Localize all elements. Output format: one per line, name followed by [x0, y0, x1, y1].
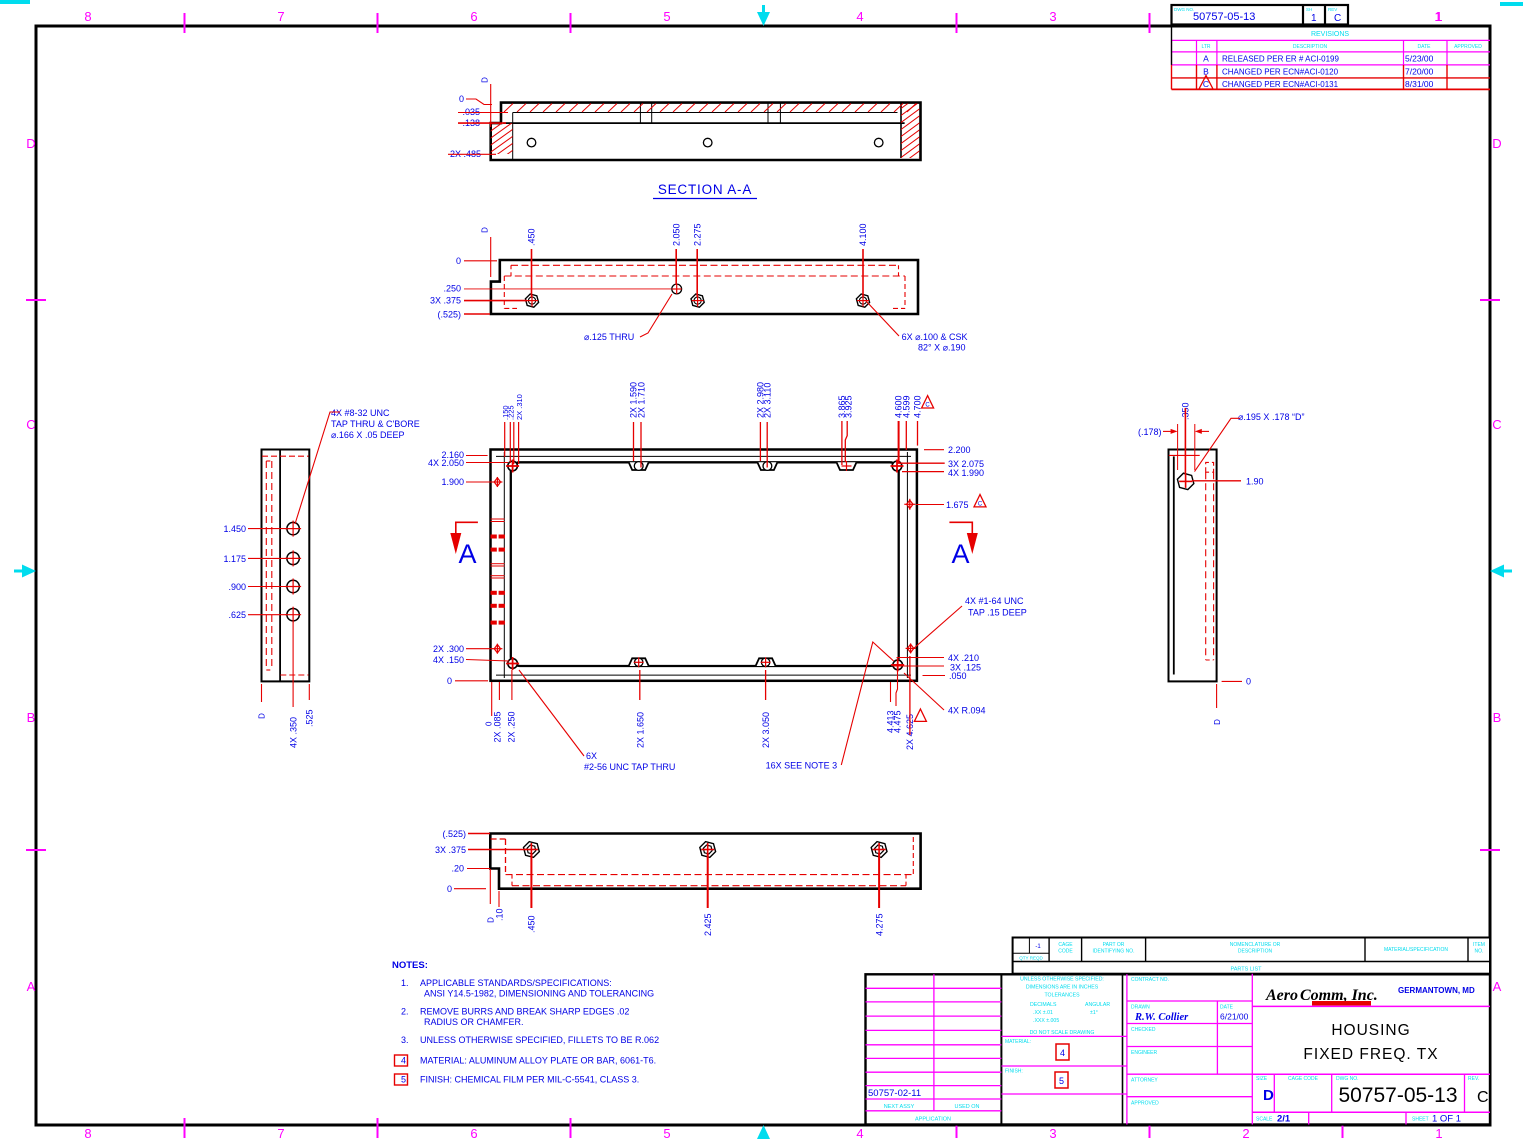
svg-text:SCALE: SCALE	[1256, 1117, 1273, 1123]
svg-text:.20: .20	[451, 864, 464, 874]
svg-text:⌀.125 THRU: ⌀.125 THRU	[584, 332, 634, 342]
svg-text:USED ON: USED ON	[954, 1104, 979, 1110]
svg-text:1 OF 1: 1 OF 1	[1432, 1114, 1461, 1125]
svg-text:1.: 1.	[401, 978, 409, 988]
main view right rim holes	[907, 500, 913, 508]
svg-text:.625: .625	[228, 610, 246, 620]
svg-text:DESCRIPTION: DESCRIPTION	[1238, 949, 1273, 955]
svg-text:CAGE CODE: CAGE CODE	[1288, 1076, 1319, 1082]
svg-text:2X 3.110: 2X 3.110	[763, 383, 773, 418]
svg-text:DRAWN: DRAWN	[1131, 1005, 1150, 1011]
svg-text:RADIUS OR CHAMFER.: RADIUS OR CHAMFER.	[424, 1017, 524, 1027]
finish flag 5	[1055, 1072, 1068, 1088]
svg-text:DESCRIPTION: DESCRIPTION	[1293, 44, 1328, 50]
svg-text:2X 3.050: 2X 3.050	[761, 712, 771, 748]
bottom view csk holes 3X	[524, 842, 540, 858]
svg-text:.525: .525	[305, 709, 315, 727]
svg-text:6X: 6X	[586, 751, 597, 761]
svg-text:2.200: 2.200	[948, 445, 971, 455]
svg-text:0: 0	[1246, 677, 1251, 687]
svg-text:1.90: 1.90	[1246, 477, 1264, 487]
svg-text:CAGE: CAGE	[1058, 942, 1073, 948]
svg-text:PART OR: PART OR	[1103, 942, 1125, 948]
svg-text:0: 0	[459, 94, 464, 104]
svg-text:2: 2	[1242, 1126, 1249, 1139]
right view red lip line	[1169, 454, 1200, 456]
svg-text:⌀.166 X .05 DEEP: ⌀.166 X .05 DEEP	[331, 430, 404, 440]
svg-text:4.275: 4.275	[874, 913, 884, 936]
signature column	[1216, 1001, 1218, 1074]
svg-text:FINISH: CHEMICAL FILM PER MIL-: FINISH: CHEMICAL FILM PER MIL-C-5541, CL…	[420, 1075, 639, 1085]
svg-text:.450: .450	[527, 228, 537, 246]
svg-text:8/31/00: 8/31/00	[1405, 79, 1434, 89]
svg-text:16X SEE NOTE 3: 16X SEE NOTE 3	[766, 761, 838, 771]
svg-text:4: 4	[856, 1126, 863, 1139]
svg-text:C: C	[1334, 13, 1341, 24]
svg-text:3: 3	[1049, 9, 1056, 24]
svg-text:1: 1	[1311, 13, 1317, 24]
svg-text:82° X ⌀.190: 82° X ⌀.190	[918, 343, 966, 353]
title block outer	[866, 974, 1491, 1124]
svg-text:6X ⌀.100 & CSK: 6X ⌀.100 & CSK	[902, 332, 968, 342]
svg-text:.450: .450	[527, 915, 537, 933]
svg-text:2.425: 2.425	[703, 913, 713, 936]
left view lip dashed lines	[262, 455, 309, 457]
svg-text:REMOVE BURRS AND BREAK SHARP E: REMOVE BURRS AND BREAK SHARP EDGES .02	[420, 1007, 629, 1017]
svg-text:1.175: 1.175	[223, 554, 246, 564]
svg-text:4X 2.050: 4X 2.050	[428, 458, 464, 468]
section A-A hatch right block	[899, 93, 922, 187]
svg-text:6: 6	[470, 1126, 477, 1139]
svg-text:A: A	[1493, 979, 1502, 994]
main view bottom notches	[629, 658, 649, 666]
svg-text:2X .085: 2X .085	[493, 711, 503, 742]
svg-text:FIXED FREQ. TX: FIXED FREQ. TX	[1303, 1046, 1438, 1063]
svg-text:ATTORNEY: ATTORNEY	[1131, 1078, 1158, 1084]
parts list header box	[1013, 938, 1490, 974]
svg-text:D: D	[1213, 719, 1222, 725]
svg-text:CHECKED: CHECKED	[1131, 1027, 1156, 1033]
svg-text:HOUSING: HOUSING	[1331, 1022, 1410, 1039]
svg-text:MATERIAL: ALUMINUM ALLOY PLATE: MATERIAL: ALUMINUM ALLOY PLATE OR BAR, 6…	[420, 1056, 656, 1066]
svg-text:50757-05-13: 50757-05-13	[1193, 11, 1255, 23]
svg-text:APPLICATION: APPLICATION	[915, 1117, 951, 1123]
bottom view outline	[490, 834, 920, 889]
revision block dwg no box	[1172, 5, 1349, 25]
svg-text:6: 6	[470, 9, 477, 24]
svg-text:DO NOT SCALE DRAWING: DO NOT SCALE DRAWING	[1030, 1030, 1095, 1036]
svg-text:DATE: DATE	[1418, 44, 1432, 50]
svg-text:2.: 2.	[401, 1007, 409, 1017]
svg-text:CONTRACT NO.: CONTRACT NO.	[1131, 977, 1169, 983]
svg-text:C: C	[26, 417, 35, 432]
svg-text:2.050: 2.050	[672, 223, 682, 246]
svg-text:R.W. Collier: R.W. Collier	[1134, 1012, 1189, 1023]
svg-text:.900: .900	[228, 582, 246, 592]
front view hole .125 thru	[672, 284, 682, 294]
zone ticks sides	[26, 299, 46, 301]
left view holes 4X	[287, 522, 299, 534]
svg-text:B: B	[1493, 710, 1502, 725]
svg-text:4X #1-64 UNC: 4X #1-64 UNC	[965, 596, 1024, 606]
svg-text:5: 5	[663, 1126, 670, 1139]
svg-text:1.675: 1.675	[946, 500, 969, 510]
section A-A screw holes	[527, 138, 536, 147]
section A-A hatch left block	[488, 106, 516, 175]
scale sheet row	[1252, 1111, 1490, 1113]
svg-text:LTR: LTR	[1201, 44, 1210, 50]
svg-text:2X 1.650: 2X 1.650	[635, 712, 645, 748]
svg-text:3: 3	[1049, 1126, 1056, 1139]
svg-text:D: D	[481, 227, 490, 233]
svg-text:SHEET: SHEET	[1412, 1117, 1429, 1123]
svg-text:1.450: 1.450	[223, 524, 246, 534]
left view inner line	[279, 450, 281, 682]
main view outer rect	[491, 450, 917, 681]
svg-text:TAP .15 DEEP: TAP .15 DEEP	[968, 608, 1027, 618]
tolerance block	[1122, 974, 1124, 1125]
svg-text:0: 0	[456, 256, 461, 266]
svg-text:MATERIAL:: MATERIAL:	[1005, 1039, 1031, 1045]
svg-text:⌀.195 X .178 “D”: ⌀.195 X .178 “D”	[1238, 412, 1304, 422]
svg-text:2.275: 2.275	[693, 223, 703, 246]
svg-text:1: 1	[1434, 9, 1441, 24]
svg-text:4X #8-32 UNC: 4X #8-32 UNC	[331, 408, 390, 418]
svg-text:NO.: NO.	[1475, 949, 1484, 955]
svg-text:CHANGED PER ECN#ACI-0120: CHANGED PER ECN#ACI-0120	[1222, 68, 1339, 77]
svg-text:NOMENCLATURE OR: NOMENCLATURE OR	[1230, 942, 1281, 948]
svg-text:DWG NO.: DWG NO.	[1336, 1076, 1359, 1082]
svg-text:RELEASED PER ER # ACI-0199: RELEASED PER ER # ACI-0199	[1222, 55, 1339, 64]
svg-text:DECIMALS: DECIMALS	[1030, 1002, 1057, 1008]
svg-text:NEXT ASSY: NEXT ASSY	[884, 1104, 915, 1110]
section arrow A right	[949, 522, 972, 534]
svg-text:0: 0	[447, 676, 452, 686]
section A-A rib cuts	[639, 104, 641, 124]
svg-text:7: 7	[277, 1126, 284, 1139]
svg-text:2X .300: 2X .300	[433, 644, 464, 654]
svg-text:APPROVED: APPROVED	[1131, 1101, 1159, 1107]
svg-text:QTY REQD: QTY REQD	[1019, 956, 1043, 961]
svg-text:A: A	[1203, 54, 1209, 64]
svg-text:B: B	[27, 710, 36, 725]
svg-text:4.599: 4.599	[902, 395, 912, 418]
svg-text:MATERIAL/SPECIFICATION: MATERIAL/SPECIFICATION	[1384, 947, 1448, 953]
svg-text:A: A	[458, 539, 476, 569]
svg-text:±1°: ±1°	[1090, 1010, 1098, 1016]
svg-text:REVISIONS: REVISIONS	[1311, 31, 1349, 38]
svg-text:APPLICABLE STANDARDS/SPECIFICA: APPLICABLE STANDARDS/SPECIFICATIONS:	[420, 978, 612, 988]
svg-text:8: 8	[84, 1126, 91, 1139]
section A-A right wall line	[900, 104, 902, 159]
svg-text:IDENTIFYING NO.: IDENTIFYING NO.	[1093, 949, 1135, 955]
left view outline	[262, 450, 310, 682]
svg-text:4X R.094: 4X R.094	[948, 706, 986, 716]
svg-text:4: 4	[1060, 1048, 1065, 1058]
svg-text:D: D	[1263, 1087, 1274, 1104]
svg-text:ENGINEER: ENGINEER	[1131, 1050, 1158, 1056]
svg-text:4.475: 4.475	[893, 710, 903, 733]
svg-text:.050: .050	[949, 671, 967, 681]
svg-text:DWG NO.: DWG NO.	[1174, 7, 1194, 12]
application block	[1000, 974, 1002, 1124]
right view inner line	[1173, 456, 1175, 674]
main view rim inner lines	[496, 455, 911, 457]
right view hole D	[1177, 473, 1193, 489]
svg-text:.XX ±.01: .XX ±.01	[1033, 1010, 1053, 1016]
svg-text:5: 5	[663, 9, 670, 24]
svg-text:4X .210: 4X .210	[948, 653, 979, 663]
section A-A lid seat lines	[513, 112, 898, 114]
svg-text:50757-02-11: 50757-02-11	[868, 1088, 921, 1099]
center cyan arrows	[757, 12, 770, 26]
svg-text:7/20/00: 7/20/00	[1405, 67, 1434, 77]
svg-text:REV: REV	[1328, 7, 1337, 12]
svg-text:NOTES:: NOTES:	[392, 960, 428, 971]
svg-text:6/21/00: 6/21/00	[1220, 1012, 1249, 1022]
svg-text:5/23/00: 5/23/00	[1405, 54, 1434, 64]
svg-text:4.100: 4.100	[858, 223, 868, 246]
svg-text:50757-05-13: 50757-05-13	[1338, 1084, 1457, 1107]
svg-text:4X .150: 4X .150	[433, 655, 464, 665]
svg-text:0: 0	[447, 884, 452, 894]
svg-text:3.: 3.	[401, 1035, 409, 1045]
front view csk screw holes 6X	[525, 294, 538, 307]
svg-text:Aero: Aero	[1265, 987, 1298, 1004]
section A-A outline	[491, 103, 921, 160]
svg-text:SH: SH	[1306, 7, 1312, 12]
svg-text:TOLERANCES: TOLERANCES	[1044, 993, 1080, 999]
svg-text:D: D	[26, 136, 35, 151]
svg-text:.250: .250	[443, 284, 461, 294]
svg-text:C: C	[1477, 1089, 1489, 1106]
svg-text:CODE: CODE	[1058, 949, 1073, 955]
svg-text:APPROVED: APPROVED	[1454, 44, 1482, 50]
right view hidden dashes	[1206, 462, 1214, 472]
main view corner holes	[508, 461, 518, 471]
material flag 4	[1056, 1044, 1069, 1060]
revision triangle top right	[922, 396, 934, 408]
svg-text:CHANGED PER ECN#ACI-0131: CHANGED PER ECN#ACI-0131	[1222, 80, 1339, 89]
svg-text:.10: .10	[494, 908, 504, 921]
svg-text:A: A	[27, 979, 36, 994]
svg-text:2/1: 2/1	[1277, 1114, 1291, 1125]
svg-text:PARTS LIST: PARTS LIST	[1231, 967, 1263, 973]
svg-text:C: C	[1492, 417, 1501, 432]
svg-text:A: A	[951, 539, 969, 569]
svg-text:TAP THRU & C'BORE: TAP THRU & C'BORE	[331, 419, 420, 429]
svg-text:D: D	[258, 713, 267, 719]
svg-text:5: 5	[1059, 1076, 1064, 1086]
main view top notches	[629, 462, 649, 470]
svg-text:3X .375: 3X .375	[430, 296, 461, 306]
section A-A hatch top strip	[504, 104, 513, 113]
svg-text:SIZE: SIZE	[1256, 1076, 1268, 1082]
svg-text:FINISH:: FINISH:	[1005, 1069, 1023, 1075]
svg-text:SECTION A-A: SECTION A-A	[658, 182, 752, 197]
svg-text:UNLESS OTHERWISE SPECIFIED:: UNLESS OTHERWISE SPECIFIED:	[1020, 977, 1104, 983]
section arrow A left	[456, 522, 478, 534]
svg-text:UNLESS OTHERWISE SPECIFIED, FI: UNLESS OTHERWISE SPECIFIED, FILLETS TO B…	[420, 1035, 659, 1045]
svg-text:2X .310: 2X .310	[515, 394, 524, 420]
svg-text:4.700: 4.700	[913, 395, 923, 418]
size cage dwg rev row	[1252, 1073, 1490, 1075]
svg-text:(.178): (.178)	[1138, 427, 1162, 437]
svg-text:DIMENSIONS ARE IN INCHES: DIMENSIONS ARE IN INCHES	[1026, 985, 1099, 991]
svg-text:1.900: 1.900	[441, 477, 464, 487]
svg-text:C: C	[925, 403, 930, 409]
svg-text:2X .250: 2X .250	[506, 711, 516, 742]
svg-text:#2-56 UNC TAP THRU: #2-56 UNC TAP THRU	[584, 762, 675, 772]
svg-text:ANGULAR: ANGULAR	[1085, 1002, 1110, 1008]
svg-text:ANSI Y14.5-1982, DIMENSIONING: ANSI Y14.5-1982, DIMENSIONING AND TOLERA…	[424, 989, 654, 999]
svg-text:REV.: REV.	[1468, 1076, 1479, 1082]
svg-text:7: 7	[277, 9, 284, 24]
svg-text:(.525): (.525)	[442, 829, 466, 839]
svg-text:D: D	[1492, 136, 1501, 151]
left view hidden dashes	[265, 461, 267, 670]
svg-text:-1: -1	[1035, 944, 1041, 950]
zone ticks top/bottom	[184, 13, 186, 33]
svg-text:8: 8	[84, 9, 91, 24]
bottom view hidden dashes	[491, 838, 506, 840]
svg-text:GERMANTOWN, MD: GERMANTOWN, MD	[1398, 986, 1475, 995]
svg-text:.XXX ±.005: .XXX ±.005	[1033, 1018, 1059, 1024]
svg-text:D: D	[481, 77, 490, 83]
svg-text:ITEM: ITEM	[1473, 942, 1485, 948]
section A-A left wall line	[512, 113, 514, 160]
svg-text:3.925: 3.925	[844, 395, 854, 418]
main view left rim hidden dashes	[491, 518, 505, 520]
svg-text:4X 1.990: 4X 1.990	[948, 468, 984, 478]
corner cyan marks	[0, 0, 30, 4]
main view left rim holes	[494, 478, 500, 486]
svg-text:(.525): (.525)	[437, 310, 461, 320]
svg-text:2X 1.710: 2X 1.710	[637, 382, 647, 418]
right view outline	[1169, 450, 1217, 682]
main view pocket	[511, 462, 899, 666]
svg-text:DATE: DATE	[1220, 1005, 1234, 1011]
front view outline	[491, 260, 918, 314]
svg-text:4: 4	[856, 9, 863, 24]
svg-text:1: 1	[1435, 1126, 1442, 1139]
svg-text:3X .375: 3X .375	[435, 845, 466, 855]
revision triangle bottom right	[914, 709, 926, 721]
front view hidden pocket dashed lines	[511, 264, 899, 266]
svg-text:4X .350: 4X .350	[289, 717, 299, 748]
svg-text:C: C	[978, 502, 983, 508]
